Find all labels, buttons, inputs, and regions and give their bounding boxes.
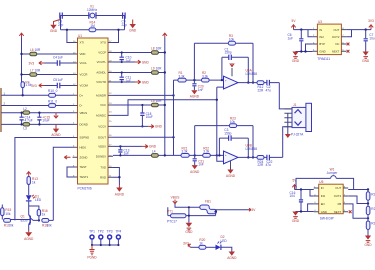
resistor R5: [30, 48, 41, 56]
svg-text:1k: 1k: [42, 213, 46, 217]
svg-text:VCCP: VCCP: [98, 51, 106, 55]
wire row AGND3 jog to long bias wire: [113, 100, 217, 116]
no-connect U5 pin4R: [349, 210, 352, 213]
svg-text:GND: GND: [142, 60, 150, 64]
power port 5V at U3: [291, 19, 296, 30]
regulator U3 body: [317, 20, 341, 61]
svg-text:3.3k: 3.3k: [179, 74, 185, 78]
capacitor C5 1uF row VCOM: [45, 78, 73, 88]
capacitor C21 chain node: [193, 155, 205, 166]
svg-text:TP3: TP3: [107, 229, 113, 233]
svg-text:TPA6111: TPA6111: [317, 57, 330, 61]
jumper wire W1 with arc: [296, 168, 354, 190]
svg-text:12MHz: 12MHz: [87, 8, 98, 12]
svg-text:VCCL: VCCL: [80, 61, 88, 65]
svg-text:GND: GND: [321, 210, 327, 214]
capacitor C18 in vertical: [140, 105, 153, 126]
wire R18 to rail: [49, 219, 54, 221]
svg-text:AGND: AGND: [190, 95, 200, 99]
svg-text:22R: 22R: [258, 163, 265, 167]
svg-text:VDD: VDD: [80, 52, 86, 56]
power port 5V at U5: [292, 179, 297, 190]
IC U5 body: [319, 180, 344, 221]
junction upper chain node: [193, 79, 195, 81]
ground PGND for test points: [87, 245, 97, 260]
svg-text:47u: 47u: [266, 163, 272, 167]
resistor R13 LED: [27, 177, 38, 185]
wire Q1 emitter to ground: [28, 225, 30, 231]
PTC fuse PT1: [167, 207, 216, 223]
wire U4B output: [238, 156, 257, 158]
svg-text:3.3k: 3.3k: [182, 150, 188, 154]
svg-text:GND: GND: [319, 49, 325, 53]
capacitor C14 bridging: [20, 113, 33, 125]
feedback resistor rail upper: [194, 43, 253, 82]
wire oscillator bottom rail: [61, 16, 125, 30]
junction C6 bottom: [300, 50, 302, 52]
svg-text:EN: EN: [321, 202, 325, 206]
ground for C8: [50, 20, 60, 34]
wire VCC IC row: [113, 104, 165, 106]
U1 left pin stubs: [73, 43, 78, 178]
svg-text:R11_0: R11_0: [48, 99, 57, 103]
ground AGND under C21: [190, 165, 200, 174]
resistor R11 row D-: [4, 99, 58, 107]
svg-text:AGND: AGND: [190, 170, 200, 174]
resistor R14 1M: [89, 21, 96, 32]
wire SSPND row going down: [15, 138, 73, 221]
svg-text:GND: GND: [142, 80, 150, 84]
svg-text:L6: L6: [30, 48, 34, 52]
svg-text:PJ-327A: PJ-327A: [291, 132, 304, 136]
junction row VCC rail: [164, 104, 166, 106]
junction bead out: [215, 211, 217, 213]
svg-text:1uF: 1uF: [288, 36, 294, 40]
resistor R6: [30, 68, 41, 76]
wire divider node1: [367, 190, 369, 207]
resistor R10 row D+: [4, 89, 58, 97]
wire R16 to R18 node: [38, 216, 40, 221]
svg-text:NEXT: NEXT: [334, 210, 342, 214]
svg-text:GND: GND: [185, 230, 193, 234]
U3 right pin stubs: [341, 30, 346, 52]
power port VCC op-amp rail: [163, 33, 167, 37]
svg-text:104: 104: [290, 194, 296, 198]
wire lower chain input: [188, 154, 223, 156]
svg-text:GND: GND: [149, 145, 157, 149]
headphone jack J1: [284, 103, 311, 136]
svg-text:4.7uF: 4.7uF: [25, 119, 33, 123]
ground AGND under GND row: [51, 124, 61, 137]
crystal X1: [87, 5, 98, 19]
resistor R2 upper chain: [202, 71, 210, 82]
U1 right pin stubs: [108, 43, 113, 178]
wire bead to 5V port: [214, 210, 248, 212]
power pin U4B to ground: [226, 161, 236, 178]
svg-text:10R: 10R: [156, 46, 163, 50]
svg-text:10u: 10u: [369, 36, 375, 40]
svg-text:10k: 10k: [229, 38, 235, 42]
power port 3V3 LED branch: [27, 172, 31, 177]
svg-text:3V3: 3V3: [29, 62, 35, 66]
LED D1: [26, 194, 42, 202]
junction C18: [141, 104, 143, 128]
resistor R4 pullup: [21, 80, 32, 87]
junction pin3 jog: [304, 50, 306, 52]
svg-text:OUT2: OUT2: [334, 194, 342, 198]
svg-text:3.3k: 3.3k: [203, 150, 209, 154]
svg-text:PCM2706: PCM2706: [78, 187, 92, 191]
U1 right pin numbers: [109, 41, 112, 178]
wire VCCP row: [113, 52, 165, 54]
port 3V3 arrow row VCCL: [29, 61, 45, 65]
ground AGND at jack: [285, 134, 291, 138]
capacitor C13 bridging rows: [118, 146, 129, 155]
ground AGND under Q1: [24, 231, 34, 242]
svg-text:8550: 8550: [21, 218, 28, 222]
U5 pin numbers: [314, 186, 346, 212]
svg-text:NC: NC: [335, 42, 339, 46]
power port 5V bottom: [171, 196, 180, 204]
ground AGND LED2: [227, 252, 237, 261]
svg-text:R10_0: R10_0: [48, 89, 58, 93]
junction rail chain: [164, 154, 166, 156]
resistor R18: [42, 219, 52, 228]
junction C16 bottom: [300, 210, 302, 212]
svg-text:1uF: 1uF: [58, 78, 64, 82]
junction divider top: [367, 188, 369, 190]
ground arrow row VOUTL: [135, 60, 149, 64]
U5 left pin stubs: [314, 188, 319, 212]
svg-text:AGNDL: AGNDL: [96, 71, 106, 75]
wire to jack ring: [283, 127, 292, 158]
resistor R23 feedback lower: [229, 117, 236, 128]
wire test pins tied left: [67, 167, 73, 177]
junction crystal left: [66, 29, 68, 31]
ferrite bead L3: [23, 123, 30, 131]
junction test point bus: [91, 244, 120, 246]
wire R20 to LED2: [206, 246, 216, 248]
wire DAC L out row: [113, 94, 174, 96]
svg-text:BYP: BYP: [319, 42, 325, 46]
svg-text:DOUT: DOUT: [98, 136, 106, 140]
svg-text:FB1: FB1: [205, 199, 211, 203]
wire divider node2: [367, 215, 369, 221]
svg-text:GND: GND: [155, 125, 163, 129]
wire row VOUTL to gnd arrow: [113, 61, 135, 63]
LED D2: [216, 235, 228, 250]
junction rail VDD: [20, 53, 22, 55]
resistor R7 VCCP: [151, 46, 162, 54]
wire 5V to U5 pin1: [295, 189, 314, 191]
resistor R21 lower chain: [181, 146, 189, 157]
USB connector body edge: [0, 88, 2, 132]
junction VCC rail mid: [164, 71, 166, 73]
svg-text:TP4: TP4: [115, 229, 121, 233]
wire VCC rail: [164, 38, 166, 156]
svg-text:U1: U1: [78, 34, 82, 38]
junction VCC rail top: [164, 51, 166, 53]
svg-text:VCCR: VCCR: [80, 73, 88, 77]
svg-text:1nF: 1nF: [198, 163, 204, 167]
no-connect pin4R: [347, 50, 350, 53]
svg-text:LED: LED: [35, 198, 42, 202]
svg-text:TEST: TEST: [80, 165, 87, 169]
wire U5 pin3 jog: [308, 204, 314, 212]
svg-text:PGND: PGND: [87, 256, 97, 260]
svg-text:L8: L8: [151, 46, 155, 50]
wire TXD RXD tied right: [113, 168, 119, 178]
svg-text:L7: L7: [30, 68, 34, 72]
capacitor C8 22p: [58, 13, 64, 28]
svg-text:R25: R25: [371, 192, 375, 196]
svg-text:10k: 10k: [5, 212, 11, 216]
capacitor C20 chain node: [192, 80, 204, 92]
wire rail to D+: [22, 87, 24, 95]
svg-text:U3: U3: [318, 20, 322, 24]
svg-text:DGND: DGND: [80, 123, 88, 127]
svg-text:1nF: 1nF: [198, 88, 204, 92]
wire collector branch to R16: [29, 206, 39, 210]
svg-text:VCOM: VCOM: [80, 84, 89, 88]
svg-text:1k: 1k: [199, 242, 203, 246]
junction C6 top: [300, 28, 302, 30]
svg-text:GND: GND: [129, 28, 137, 32]
svg-text:D-: D-: [80, 104, 83, 108]
junction bias bus: [216, 99, 218, 157]
capacitor C10 bridging VCCP-VOUTL: [120, 51, 132, 63]
wire D- row: [2, 105, 73, 107]
svg-text:3V3: 3V3: [368, 19, 374, 23]
wire 3V3 rail left: [21, 38, 23, 83]
wire crystal to pin XTO: [113, 30, 119, 43]
resistor R15 edge pullup: [1, 205, 12, 220]
svg-text:OUT: OUT: [333, 28, 339, 32]
svg-text:3V3: 3V3: [183, 241, 189, 245]
wire to jack tip: [279, 83, 292, 109]
svg-text:OUT2: OUT2: [332, 35, 340, 39]
wire divider to ground: [367, 229, 369, 235]
svg-text:VBUS: VBUS: [80, 111, 88, 115]
svg-text:AGNDC: AGNDC: [96, 114, 106, 118]
svg-text:TP2: TP2: [98, 229, 104, 233]
svg-text:GND: GND: [362, 59, 370, 63]
svg-text:RXD: RXD: [100, 175, 106, 179]
wire U4B minus input: [217, 155, 224, 161]
wire VDDX row: [113, 145, 142, 147]
wire row VOUTR to gnd arrow: [113, 81, 135, 83]
wire U3 pin2R jog: [346, 30, 351, 37]
capacitor C6 input: [288, 30, 304, 52]
resistor R20 LED2: [199, 238, 206, 249]
svg-text:-: -: [225, 160, 226, 164]
svg-text:IN2: IN2: [319, 35, 324, 39]
svg-text:XTI: XTI: [80, 41, 85, 45]
svg-text:D+: D+: [80, 94, 84, 98]
svg-text:10k: 10k: [8, 223, 14, 227]
capacitor C2 output upper: [264, 80, 279, 93]
wire U5 pin2R tap: [348, 196, 368, 204]
svg-text:10uF: 10uF: [146, 115, 153, 119]
ferrite bead L4 dark: [151, 149, 158, 157]
svg-text:AGND: AGND: [24, 237, 34, 241]
svg-text:L4: L4: [152, 149, 156, 153]
capacitor C9 22p: [122, 13, 128, 28]
svg-text:IN2: IN2: [321, 194, 326, 198]
svg-text:FB: FB: [338, 202, 342, 206]
svg-text:TP1: TP1: [89, 229, 95, 233]
capacitor C11 bridging AGNDL-VOUTR: [120, 71, 132, 83]
U5 pin names: [321, 186, 342, 214]
resistor R17 base: [4, 219, 14, 228]
ferrite bead L2: [23, 107, 30, 114]
wire test point bus: [92, 244, 118, 246]
junction R16 node: [38, 219, 40, 221]
svg-text:TXD: TXD: [100, 166, 106, 170]
svg-text:SW-8 DIP: SW-8 DIP: [320, 217, 334, 221]
capacitor C22 output lower: [264, 155, 283, 168]
svg-text:3.3k: 3.3k: [202, 74, 208, 78]
wire U5 pin3R tap: [348, 204, 368, 218]
junction C16 top: [300, 188, 302, 190]
junction lower chain node: [194, 154, 196, 156]
junction crystal right: [117, 29, 119, 31]
capacitor C16: [290, 190, 304, 212]
feedback resistor rail lower: [195, 126, 253, 158]
svg-text:150p: 150p: [224, 132, 231, 136]
svg-text:GND: GND: [50, 29, 58, 33]
svg-text:L3: L3: [23, 127, 27, 131]
svg-text:L2: L2: [23, 107, 27, 111]
U1 left pin names: [80, 41, 90, 180]
ground GND left of U5: [292, 212, 300, 223]
U3 left pin stubs: [312, 30, 317, 52]
wire U3 pin2 jog: [308, 30, 312, 37]
junction feedback upper: [221, 79, 255, 84]
svg-text:10k: 10k: [47, 223, 53, 227]
junction RXD: [118, 176, 120, 178]
wire oscillator top rail: [61, 15, 125, 17]
junction feedback lower: [218, 154, 254, 158]
svg-text:Jumper: Jumper: [327, 171, 339, 175]
U1 right pin names: [96, 41, 107, 180]
capacitor C4 1uF row VCCL: [45, 56, 73, 66]
test point TP4: [115, 229, 121, 245]
wire GND row: [2, 123, 73, 125]
svg-text:VCC: VCC: [100, 103, 106, 107]
feedback cap rail lower: [219, 138, 248, 157]
svg-text:NEXT: NEXT: [332, 49, 340, 53]
ground GND left of U3: [292, 52, 300, 63]
junction D+ pullup: [22, 94, 24, 96]
wire VDD row: [22, 53, 73, 55]
junction vertical feed: [172, 136, 174, 138]
wire VBUS row: [2, 112, 73, 114]
U1 left pin numbers: [73, 41, 76, 178]
svg-text:AGND: AGND: [226, 174, 236, 178]
svg-text:R27: R27: [371, 222, 375, 226]
svg-text:IN: IN: [321, 186, 324, 190]
wire U3 gnd row: [296, 51, 313, 53]
ground AGND under U1: [115, 185, 125, 196]
wire U3 OUT to 3V3: [346, 29, 371, 31]
svg-text:IN: IN: [319, 28, 322, 32]
junction C13 bottom: [119, 154, 121, 156]
wire DGNDX row chain start: [113, 154, 181, 156]
power flag VBUS: [54, 113, 58, 118]
wire row 126 to gnd arrow: [113, 125, 148, 127]
resistor R16: [37, 209, 48, 217]
svg-text:22p: 22p: [122, 23, 128, 27]
power port 3V3 LED2: [183, 241, 191, 247]
wire U5 gnd row: [296, 211, 314, 213]
svg-text:DGNDX: DGNDX: [96, 154, 106, 158]
svg-text:-: -: [225, 85, 226, 89]
svg-text:AGND: AGND: [115, 192, 125, 196]
wire R13 to LED: [28, 185, 30, 196]
svg-text:GND: GND: [292, 59, 300, 63]
svg-text:TEST1: TEST1: [80, 175, 89, 179]
junction chain feed upper: [172, 94, 174, 96]
resistor R24 output lower: [257, 156, 264, 168]
wire HID row going down: [53, 147, 72, 220]
wire U5 out to divider: [348, 189, 368, 191]
svg-text:22p: 22p: [58, 23, 64, 27]
svg-text:PT1: PT1: [167, 209, 173, 213]
svg-text:10R: 10R: [35, 68, 42, 72]
op-amp U1 body PCM2706: [78, 34, 109, 191]
port arrow row 157: [64, 156, 70, 160]
svg-text:L9: L9: [151, 66, 155, 70]
ground AGND under C20: [190, 90, 200, 98]
wire U4A output: [238, 82, 257, 84]
U3 pin names: [319, 28, 339, 54]
ground GND bottom middle: [185, 206, 193, 234]
svg-text:XTO: XTO: [100, 41, 107, 45]
power arrow U4A: [230, 63, 234, 76]
junction VBUS caps: [20, 112, 40, 126]
wire U4A minus input and bias bus: [217, 87, 224, 155]
wire U3 pin3 jog: [306, 44, 313, 52]
ground GND under C7: [362, 52, 370, 63]
junction divider node1: [367, 202, 369, 204]
wire VBUS to bead: [175, 204, 202, 208]
wire AGNDL row: [113, 72, 165, 74]
svg-text:1k: 1k: [32, 180, 36, 184]
svg-text:3V3: 3V3: [31, 84, 37, 88]
test point TP2: [98, 229, 104, 245]
resistor R27 divider: [366, 221, 375, 229]
wire crystal to pin XTI: [67, 30, 73, 43]
power port 3V3 top left: [19, 33, 23, 37]
capacitor C7 output: [364, 30, 375, 52]
capacitor C15 bridging: [37, 113, 50, 125]
ground GND divider: [364, 236, 372, 247]
wire U5 pin2 jog: [310, 190, 314, 197]
capacitor C1 feedback: [225, 47, 232, 60]
svg-text:GND: GND: [292, 219, 300, 223]
wire LED to Q1 collector: [28, 201, 30, 214]
svg-text:10uF: 10uF: [42, 119, 49, 123]
op-amp U4A: [224, 69, 258, 90]
ground arrow row 126: [148, 125, 162, 129]
svg-text:U5: U5: [319, 180, 323, 184]
svg-text:GND: GND: [364, 243, 372, 247]
capacitor C3 feedback lower: [224, 128, 231, 141]
U5 right pin stubs: [343, 188, 348, 212]
test point TP3: [107, 229, 113, 245]
test point TP1: [89, 229, 95, 245]
